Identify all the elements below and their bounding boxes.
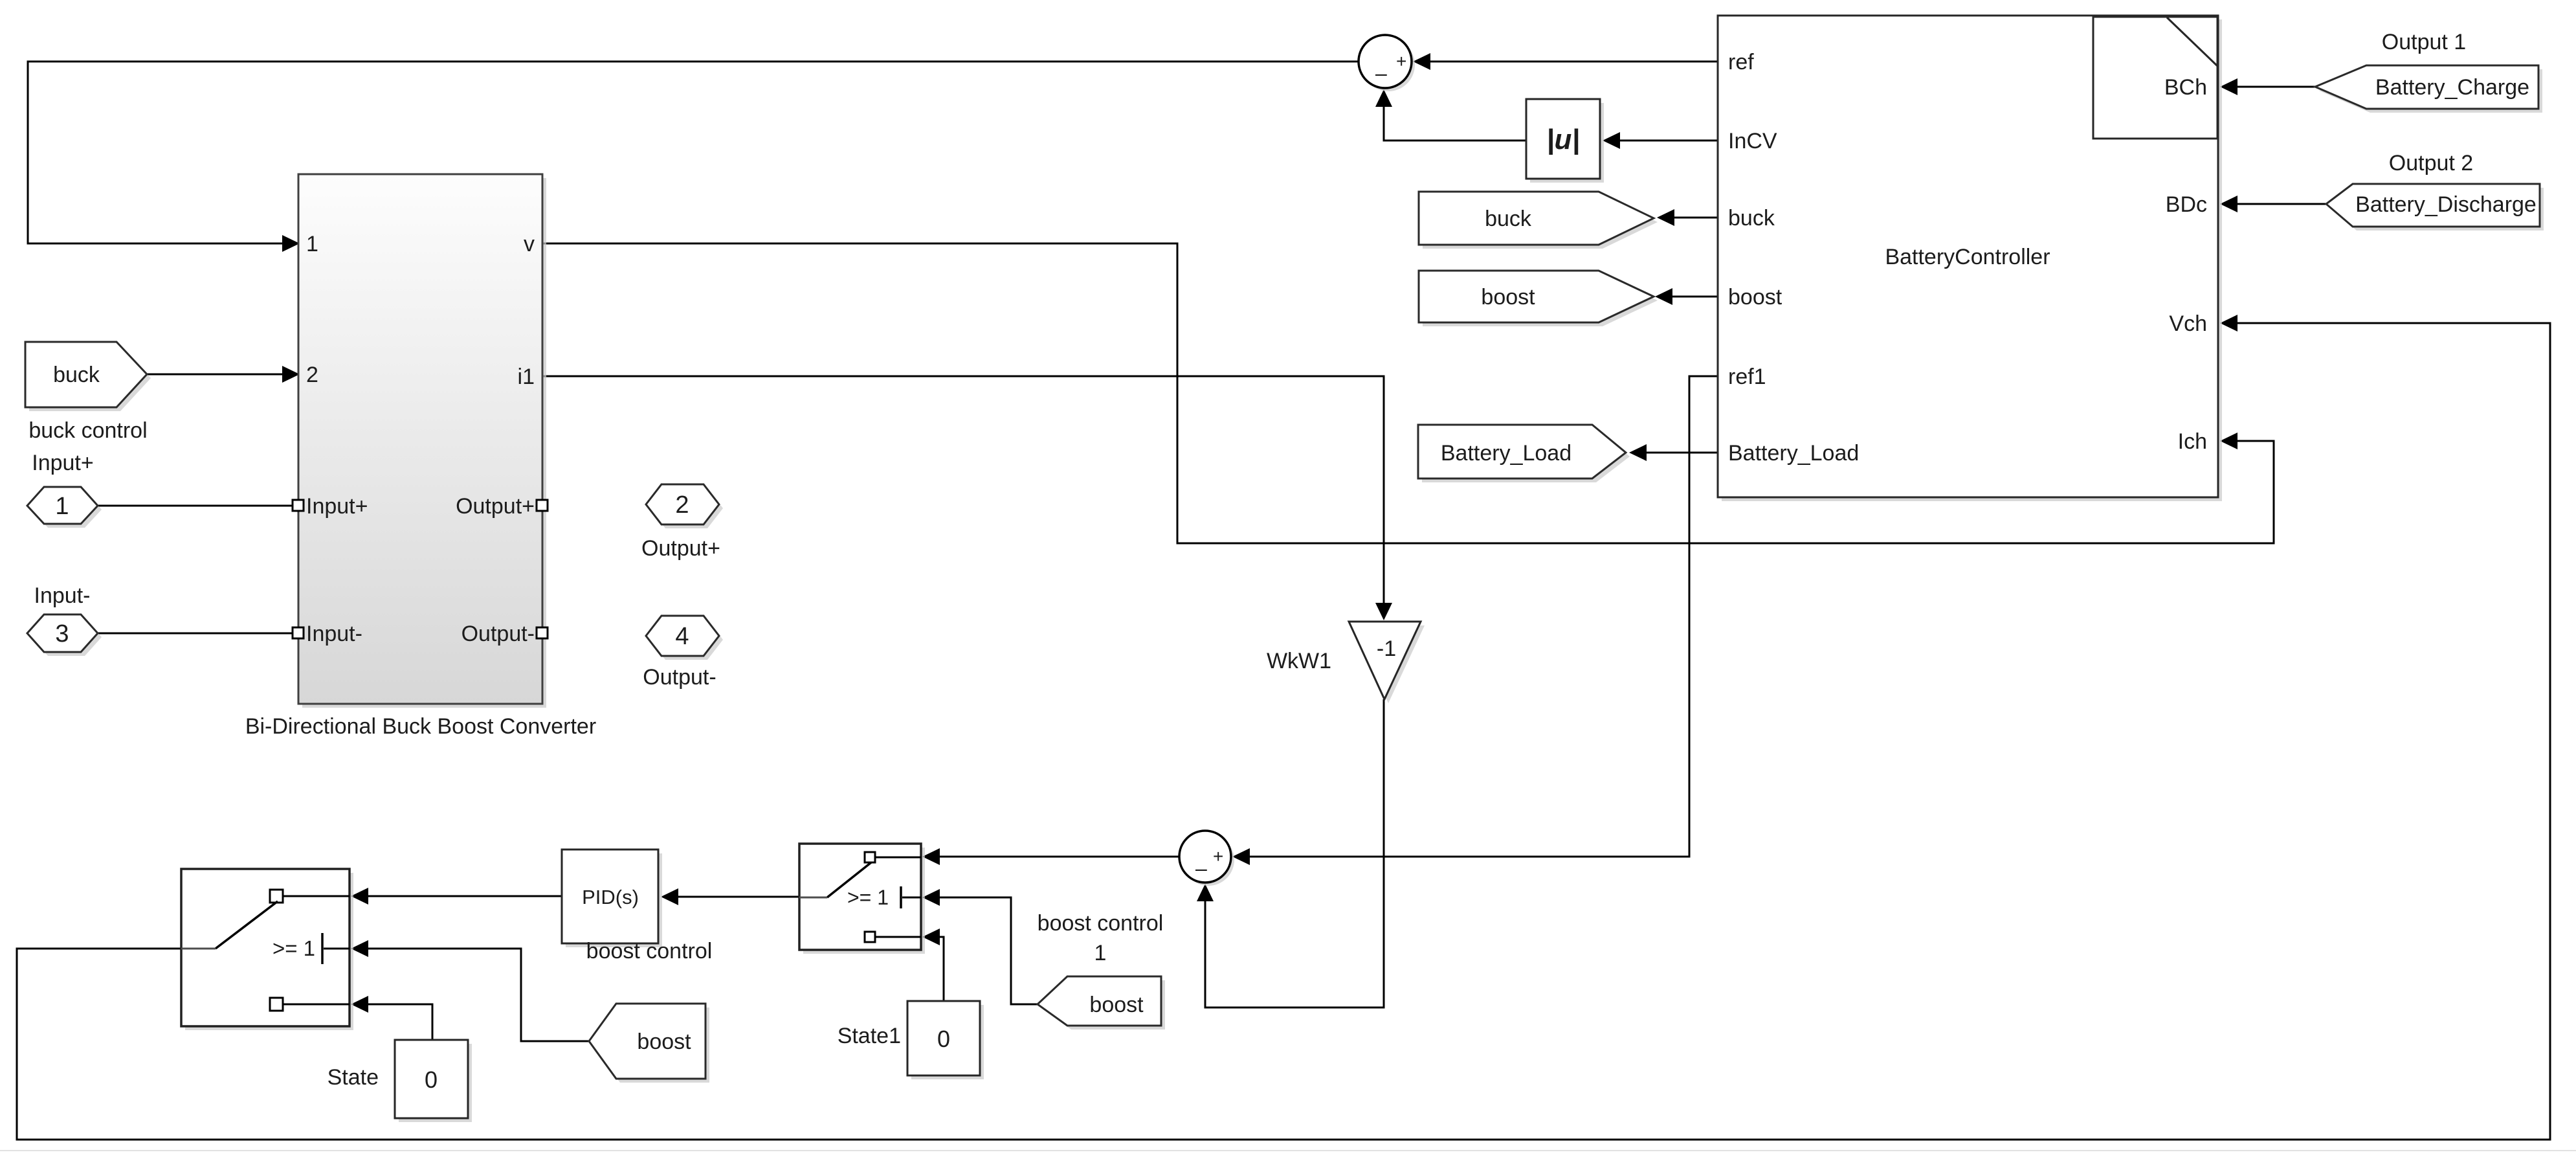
svg-text:boost: boost [637,1030,691,1054]
From tag Battery_Charge [2315,65,2542,113]
svg-text:0: 0 [937,1026,950,1052]
inport 3 Input- [27,614,102,656]
svg-text:Output+: Output+ [456,494,535,519]
svg-text:Bi-Directional Buck Boost Conv: Bi-Directional Buck Boost Converter [245,714,596,739]
svg-text:PID(s): PID(s) [582,886,639,908]
svg-text:boost: boost [1089,993,1144,1017]
PID controller block boost control [562,850,662,947]
svg-text:v: v [524,232,535,256]
port marker converter Input+ [293,500,304,511]
subsystem U1 Bi-Directional Buck Boost Converter [298,174,546,708]
switch block Switch1 (middle) [799,844,925,954]
svg-text:WkW1: WkW1 [1267,649,1331,673]
svg-text:Battery_Load: Battery_Load [1441,441,1571,466]
wire: converter i1 output to gain WkW1 [542,376,1392,620]
Goto tag boost (top) [1419,271,1658,326]
switch block Switch (bottom left) [181,869,353,1030]
wire: boost From tag 1 to Switch1 control input [922,889,1038,1004]
svg-text:BCh: BCh [2164,75,2207,100]
sum block Sum2 [1179,831,1234,886]
svg-text:4: 4 [675,623,689,650]
svg-text:Ich: Ich [2178,429,2207,454]
label of From tag Battery_Discharge [2389,151,2473,175]
svg-text:Output 2: Output 2 [2389,151,2473,175]
svg-text:Output-: Output- [643,665,716,690]
wire: BatteryController boost output to boost Goto tag [1655,288,1718,305]
wire: State constant to Switch bottom input [351,996,432,1040]
svg-text:>= 1: >= 1 [272,936,315,960]
sum block Sum1 [1359,35,1415,91]
svg-text:BatteryController: BatteryController [1885,245,2050,269]
From tag boost (bottom left) [589,1004,709,1083]
svg-text:1: 1 [1094,941,1107,965]
svg-text:Battery_Load: Battery_Load [1728,441,1859,466]
From tag buck (left) [25,342,151,411]
svg-text:boost control: boost control [1038,911,1164,936]
label of outport 2 [641,536,720,561]
subsystem U2 BatteryController [1718,16,2222,501]
label of PID block [586,939,713,963]
svg-text:–: – [1375,62,1387,85]
svg-text:boost control: boost control [586,939,713,963]
svg-text:+: + [1396,51,1406,71]
svg-text:Input+: Input+ [306,494,368,519]
wire: Sum2 output to Switch1 data input [922,848,1179,865]
svg-text:State: State [328,1065,379,1090]
port marker converter Output- [537,627,548,638]
svg-text:buck: buck [1728,206,1775,231]
wire: converter v output to BatteryController Ich [542,243,2274,543]
svg-text:Output+: Output+ [641,536,720,561]
model reference badge on BatteryController [2093,17,2217,139]
svg-text:|u|: |u| [1546,124,1580,155]
port marker converter Input- [293,627,304,638]
wire: Switch1 output to PID input [661,888,801,905]
svg-text:buck: buck [1485,207,1532,231]
port marker converter Output+ [537,500,548,511]
wire: sum Sum1 output to port 1 of converter [28,62,1359,252]
svg-text:Battery_Charge: Battery_Charge [2375,75,2529,100]
svg-text:Battery_Discharge: Battery_Discharge [2355,192,2537,217]
label of gain WkW1 [1267,649,1331,673]
svg-text:i1: i1 [518,365,535,389]
svg-text:>= 1: >= 1 [847,886,889,909]
gain WkW1 value -1 [1349,622,1425,703]
svg-text:Input-: Input- [34,583,91,608]
outport 4 Output- [646,616,723,660]
inport 1 Input+ [27,487,102,528]
label of From tag boost control 1 [1038,911,1164,965]
From tag Battery_Discharge [2326,184,2544,231]
svg-text:1: 1 [55,493,69,520]
label of outport 4 [643,665,716,690]
outport 2 Output+ [646,484,723,528]
svg-text:BDc: BDc [2166,192,2207,217]
svg-text:ref1: ref1 [1728,365,1766,389]
wire: BatteryController InCV output to Abs input [1603,132,1718,149]
svg-text:Output 1: Output 1 [2382,30,2466,54]
wire: buck From tag to port 2 of converter [147,366,300,383]
svg-text:Output-: Output- [461,622,535,646]
svg-text:-1: -1 [1377,636,1396,661]
svg-text:2: 2 [675,491,689,519]
svg-text:buck control: buck control [28,418,147,443]
constant block State value 0 [395,1040,472,1122]
label of inport 1 [32,451,93,475]
svg-text:3: 3 [55,620,69,647]
wire: BatteryController ref output to Sum1 plus input [1413,53,1718,70]
svg-text:–: – [1195,857,1207,880]
svg-text:0: 0 [425,1066,438,1093]
wire: BatteryController Battery_Load output to Battery_Load Goto tag [1629,444,1718,461]
wire: gain WkW1 output to Sum2 minus input [1197,699,1384,1007]
svg-text:boost: boost [1728,285,1782,309]
wire: Battery_Discharge From tag to BatteryController BDc [2220,196,2326,212]
svg-text:Input+: Input+ [32,451,93,475]
label of constant State1 [838,1024,901,1048]
Goto tag buck (top) [1419,192,1658,249]
label of inport 3 [34,583,91,608]
wire: boost From tag to Switch control input [351,940,589,1041]
wire: Input+ port 1 to converter Input+ [98,505,293,507]
wire: State1 constant to Switch1 bottom input [922,928,944,1001]
svg-text:ref: ref [1728,50,1754,74]
svg-text:Input-: Input- [306,622,362,646]
svg-text:buck: buck [53,363,100,387]
label of From tag Battery_Charge [2382,30,2466,54]
svg-text:+: + [1213,846,1223,866]
svg-text:1: 1 [306,232,318,256]
wire: BatteryController buck output to buck Goto tag [1657,209,1718,226]
canvas bottom separator line [0,1150,2576,1151]
wire: Abs output to Sum1 minus input [1375,89,1526,141]
wire: Switch output feedback to BatteryController Vch [17,315,2550,1140]
svg-text:InCV: InCV [1728,129,1777,153]
wire: BatteryController ref1 output to Sum2 plus input [1232,376,1718,865]
label of constant State [328,1065,379,1090]
label of From tag buck [28,418,147,443]
svg-text:Vch: Vch [2169,311,2207,336]
abs block |u| [1526,99,1604,183]
svg-text:2: 2 [306,363,318,387]
wire: PID output to Switch data input [351,888,562,905]
wire: Battery_Charge From tag to BatteryController BCh [2220,78,2315,95]
label of converter block [245,714,596,739]
wire: Input- port 3 to converter Input- [98,633,293,635]
Goto tag Battery_Load [1418,425,1630,482]
From tag boost (middle, boost control 1) [1038,976,1165,1030]
svg-text:State1: State1 [838,1024,901,1048]
constant block State1 value 0 [907,1001,984,1079]
svg-text:boost: boost [1481,285,1535,309]
